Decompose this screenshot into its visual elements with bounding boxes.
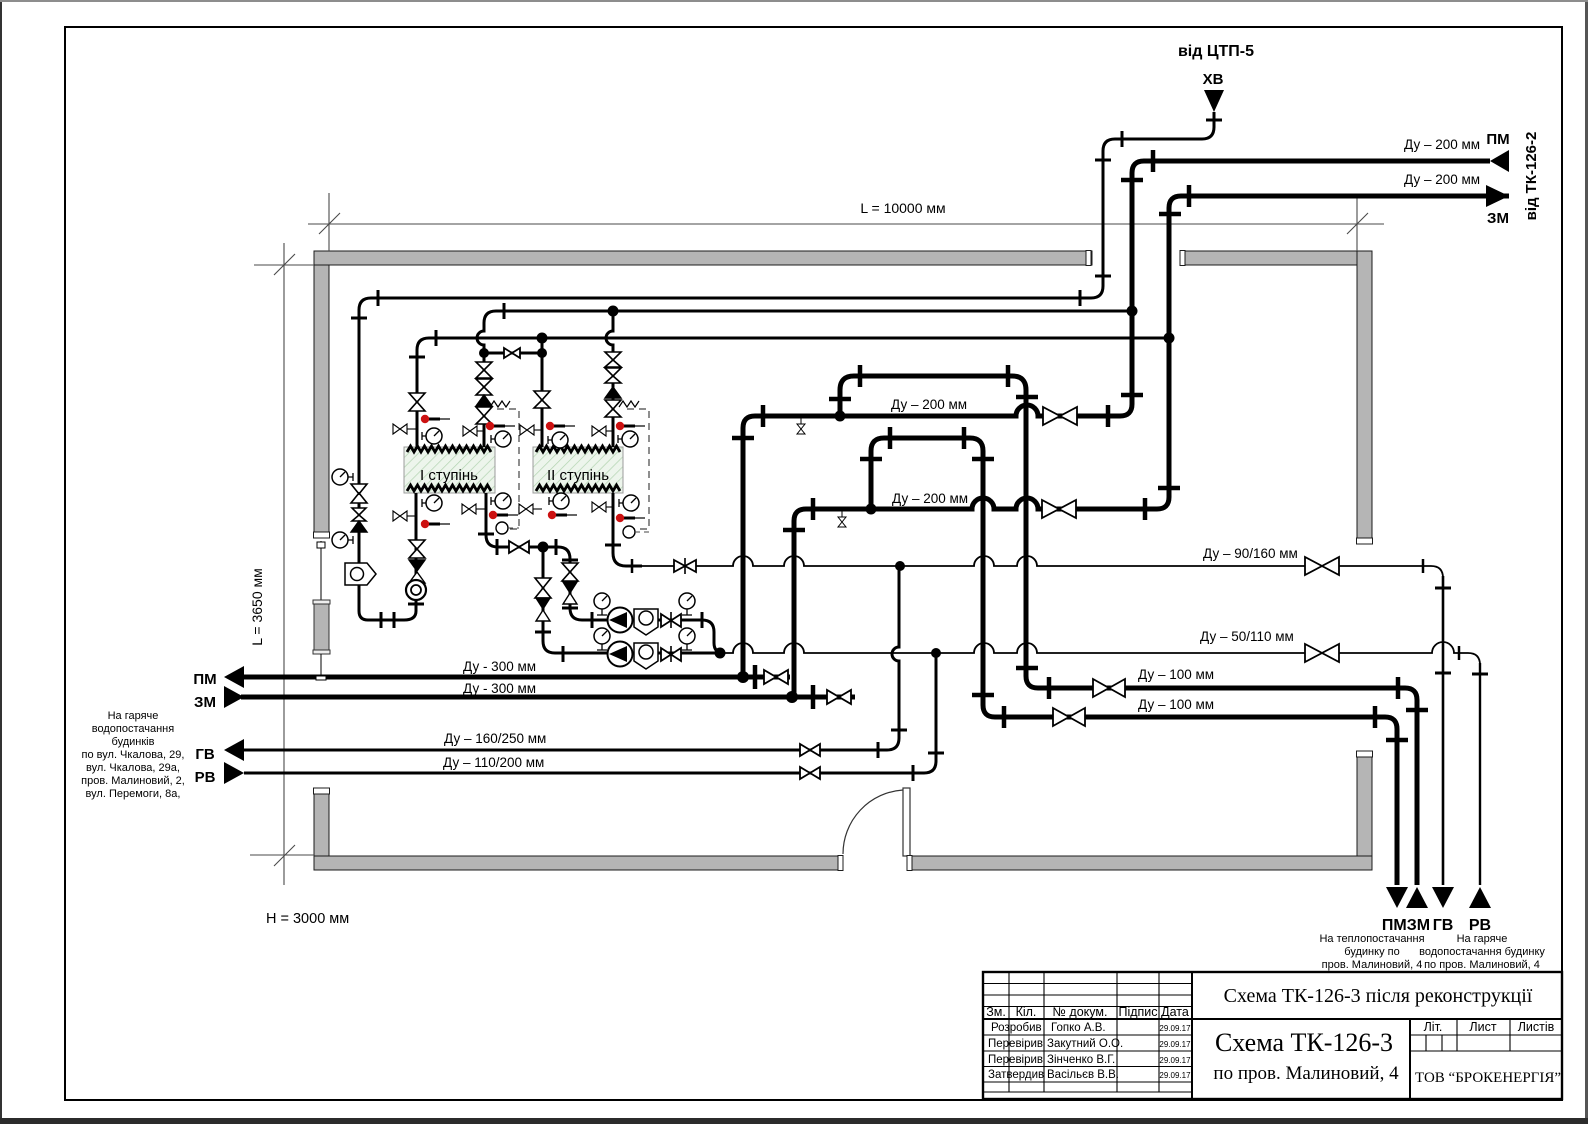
svg-text:На гаряче: На гаряче: [1457, 933, 1508, 945]
svg-text:На гаряче: На гаряче: [108, 710, 159, 722]
svg-text:На теплопостачання: На теплопостачання: [1319, 933, 1424, 945]
svg-text:по пров. Малиновий, 4: по пров. Малиновий, 4: [1424, 959, 1540, 971]
svg-text:ПМ: ПМ: [1486, 131, 1509, 148]
svg-text:Листів: Листів: [1518, 1020, 1555, 1034]
svg-text:Дата: Дата: [1161, 1005, 1189, 1019]
svg-text:ІІ ступінь: ІІ ступінь: [547, 467, 609, 484]
svg-text:вул. Чкалова, 29а,: вул. Чкалова, 29а,: [86, 762, 180, 774]
svg-text:Ду – 200 мм: Ду – 200 мм: [892, 491, 968, 506]
svg-text:Ду – 90/160 мм: Ду – 90/160 мм: [1203, 546, 1298, 561]
svg-text:Закутний О.О.: Закутний О.О.: [1047, 1038, 1123, 1050]
svg-text:І ступінь: І ступінь: [420, 467, 478, 484]
svg-text:будинку по: будинку по: [1344, 946, 1399, 958]
svg-text:Розробив: Розробив: [991, 1022, 1042, 1034]
svg-text:Ду - 300 мм: Ду - 300 мм: [463, 659, 536, 674]
svg-text:РВ: РВ: [1469, 917, 1491, 934]
svg-text:водопостачання: водопостачання: [92, 723, 174, 735]
svg-text:Гопко А.В.: Гопко А.В.: [1051, 1022, 1106, 1034]
svg-text:Літ.: Літ.: [1424, 1020, 1443, 1034]
svg-text:Ду – 160/250 мм: Ду – 160/250 мм: [444, 731, 546, 746]
svg-text:L = 3650 мм: L = 3650 мм: [249, 568, 265, 646]
svg-text:Кіл.: Кіл.: [1016, 1005, 1037, 1019]
svg-text:L = 10000 мм: L = 10000 мм: [860, 200, 945, 216]
svg-text:ЗМ: ЗМ: [1487, 210, 1509, 227]
svg-text:Ду – 200 мм: Ду – 200 мм: [1404, 137, 1480, 152]
svg-text:29.09.17: 29.09.17: [1159, 1071, 1191, 1080]
svg-text:ГВ: ГВ: [195, 746, 215, 763]
svg-text:Ду – 110/200 мм: Ду – 110/200 мм: [443, 755, 544, 770]
svg-text:будинків: будинків: [112, 736, 155, 748]
svg-text:ТОВ “БРОКЕНЕРГІЯ”: ТОВ “БРОКЕНЕРГІЯ”: [1415, 1070, 1561, 1086]
svg-text:29.09.17: 29.09.17: [1159, 1040, 1191, 1049]
svg-text:Підпис: Підпис: [1118, 1005, 1157, 1019]
svg-text:29.09.17: 29.09.17: [1159, 1024, 1191, 1033]
svg-text:Ду – 200 мм: Ду – 200 мм: [1404, 172, 1480, 187]
svg-text:ГВ: ГВ: [1433, 917, 1454, 934]
svg-text:Васільєв В.В.: Васільєв В.В.: [1047, 1069, 1119, 1081]
svg-text:Перевірив: Перевірив: [988, 1054, 1043, 1066]
svg-text:по вул. Чкалова, 29,: по вул. Чкалова, 29,: [82, 749, 185, 761]
svg-text:Зінченко В.Г.: Зінченко В.Г.: [1047, 1054, 1115, 1066]
svg-text:Лист: Лист: [1469, 1020, 1496, 1034]
svg-text:Перевірив: Перевірив: [988, 1038, 1043, 1050]
svg-text:ПМЗМ: ПМЗМ: [1382, 917, 1430, 934]
svg-text:ХВ: ХВ: [1203, 71, 1224, 88]
svg-text:РВ: РВ: [195, 769, 216, 786]
svg-text:Схема ТК-126-3: Схема ТК-126-3: [1215, 1028, 1393, 1057]
svg-text:Схема ТК-126-3 після реконстру: Схема ТК-126-3 після реконструкції: [1224, 985, 1533, 1007]
svg-text:пров. Малиновий, 4: пров. Малиновий, 4: [1322, 959, 1423, 971]
svg-text:водопостачання будинку: водопостачання будинку: [1419, 946, 1545, 958]
svg-text:ПМ: ПМ: [193, 671, 216, 688]
svg-text:H = 3000 мм: H = 3000 мм: [266, 911, 349, 927]
svg-text:пров. Малиновий, 2,: пров. Малиновий, 2,: [81, 775, 185, 787]
svg-text:ЗМ: ЗМ: [194, 694, 216, 711]
svg-text:№ докум.: № докум.: [1053, 1005, 1108, 1019]
svg-text:Ду - 300 мм: Ду - 300 мм: [463, 681, 536, 696]
svg-text:29.09.17: 29.09.17: [1159, 1056, 1191, 1065]
svg-text:Ду – 50/110 мм: Ду – 50/110 мм: [1200, 629, 1294, 644]
svg-text:по пров. Малиновий, 4: по пров. Малиновий, 4: [1213, 1063, 1399, 1084]
svg-text:Затвердив: Затвердив: [988, 1069, 1044, 1081]
svg-text:Ду – 200 мм: Ду – 200 мм: [891, 397, 967, 412]
svg-text:Ду – 100 мм: Ду – 100 мм: [1138, 667, 1214, 682]
svg-text:Ду – 100 мм: Ду – 100 мм: [1138, 697, 1214, 712]
svg-text:вул. Перемоги, 8а,: вул. Перемоги, 8а,: [86, 788, 181, 800]
svg-text:від ТК-126-2: від ТК-126-2: [1523, 132, 1540, 221]
svg-text:Зм.: Зм.: [986, 1005, 1006, 1019]
svg-text:від ЦТП-5: від ЦТП-5: [1178, 43, 1254, 60]
